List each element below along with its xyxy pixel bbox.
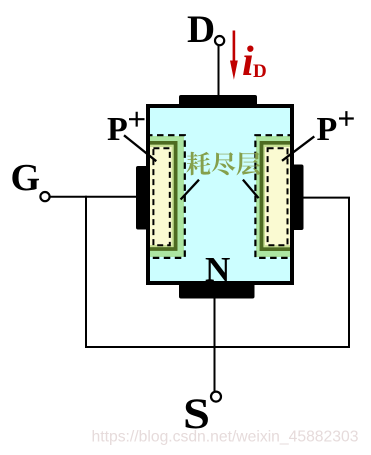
svg-text:D: D <box>187 8 215 51</box>
svg-text:https://blog.csdn.net/weixin_4: https://blog.csdn.net/weixin_45882303 <box>92 429 359 446</box>
svg-text:G: G <box>11 157 41 199</box>
svg-text:P: P <box>107 111 128 148</box>
svg-text:N: N <box>205 250 230 289</box>
svg-text:D: D <box>253 61 267 82</box>
svg-text:P: P <box>317 111 338 148</box>
